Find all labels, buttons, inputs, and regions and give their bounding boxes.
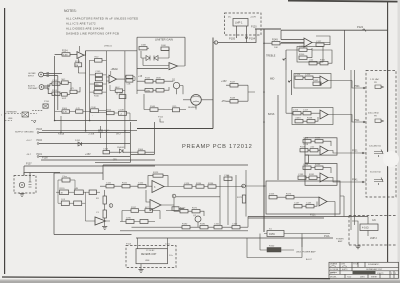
svg-text:P104: P104	[249, 37, 256, 41]
capacitor C10A	[95, 59, 103, 63]
svg-text:C153: C153	[103, 149, 109, 151]
svg-text:1M: 1M	[75, 65, 78, 67]
wire vertical bus x106.4	[105, 51, 107, 131]
svg-text:R126: R126	[300, 147, 306, 149]
svg-text:R164: R164	[138, 149, 144, 151]
svg-text:P102: P102	[37, 140, 43, 142]
svg-text:SHEET: SHEET	[371, 277, 378, 279]
wire rail y130.7	[42, 130, 137, 132]
svg-text:R151: R151	[320, 60, 326, 62]
capacitor C111	[126, 75, 133, 78]
jack icon 2	[375, 119, 384, 122]
svg-text:LINE: LINE	[8, 118, 13, 120]
resistor R121	[122, 185, 130, 188]
op-amp U3B	[152, 181, 164, 193]
svg-text:C117: C117	[303, 110, 309, 112]
svg-text:R133: R133	[315, 164, 321, 166]
svg-text:R136: R136	[208, 183, 214, 185]
resistor R150	[299, 56, 307, 59]
svg-text:C125: C125	[184, 183, 190, 185]
node circled 2	[109, 204, 113, 208]
resistor R133	[315, 166, 323, 169]
capacitor C162a	[62, 178, 70, 182]
border frame right	[387, 2, 389, 263]
capacitor C10B	[119, 111, 127, 115]
op-amp U5B	[319, 197, 327, 206]
title block part no dark cell	[353, 271, 376, 274]
svg-text:C150: C150	[104, 130, 110, 132]
svg-text:P108: P108	[42, 157, 48, 160]
capacitor C147	[294, 205, 302, 208]
svg-text:R123: R123	[153, 172, 159, 174]
bass stage outline	[292, 108, 333, 125]
op-amp U2A	[304, 38, 312, 47]
svg-text:P120: P120	[251, 26, 257, 29]
wire lamp right leg	[246, 26, 248, 43]
capacitor C105	[95, 73, 102, 76]
svg-text:C160: C160	[224, 175, 230, 177]
wire reverb driver	[144, 94, 213, 110]
jack speaker icon	[375, 85, 384, 88]
capacitor C145	[306, 205, 314, 208]
resistor R107	[70, 90, 77, 93]
input jack J2	[28, 85, 44, 91]
ground lower mid	[102, 227, 107, 230]
resistor R111	[95, 77, 102, 80]
svg-text:R104: R104	[62, 51, 68, 53]
resistor R171	[192, 210, 200, 213]
svg-text:.0033: .0033	[295, 118, 301, 120]
svg-text:DASHED LINE PORTIONS OFF PCB: DASHED LINE PORTIONS OFF PCB	[66, 32, 119, 36]
svg-text:C114: C114	[293, 110, 299, 112]
capacitor C116	[295, 120, 303, 123]
capacitor C117	[303, 112, 311, 115]
svg-text:-15V: -15V	[221, 100, 226, 103]
svg-text:D151: D151	[75, 140, 81, 142]
wire treble row	[286, 48, 332, 63]
wire led row	[260, 234, 294, 251]
svg-text:C118: C118	[303, 138, 309, 140]
svg-text:ALL CAPACITORS RATED IN uF UNL: ALL CAPACITORS RATED IN uF UNLESS NOTED	[66, 16, 138, 20]
svg-text:R147: R147	[230, 82, 236, 84]
svg-text:100K: 100K	[141, 45, 147, 47]
svg-text:P107: P107	[26, 163, 32, 166]
svg-text:+16.7: +16.7	[26, 140, 32, 142]
svg-text:C134: C134	[303, 164, 309, 166]
wire into stage C	[245, 185, 266, 187]
wire opamp out	[312, 36, 330, 45]
svg-text:PWR AMP: PWR AMP	[28, 87, 38, 90]
treble stage outline	[297, 47, 323, 63]
jack footswitch	[19, 182, 24, 187]
svg-text:A1.07: A1.07	[306, 258, 312, 261]
switch contacts	[29, 178, 32, 187]
svg-text:SUPPLY GROUND: SUPPLY GROUND	[15, 132, 34, 134]
resistor R136	[208, 185, 216, 188]
vertical wires lower mid right	[220, 170, 246, 225]
svg-text:P103: P103	[37, 129, 43, 131]
svg-text:MODEL: MODEL	[330, 277, 337, 279]
lower right stage B outline	[305, 164, 337, 186]
svg-text:(TP)101: (TP)101	[104, 46, 113, 48]
capacitor C127	[316, 43, 324, 46]
lower mid block outline	[54, 165, 248, 235]
svg-text:1/2W: 1/2W	[126, 218, 131, 220]
connector speaker line	[22, 112, 29, 117]
svg-text:R142: R142	[145, 78, 151, 80]
wire footswitch up	[24, 173, 60, 179]
svg-text:MIC: MIC	[62, 79, 66, 81]
ground reverb	[138, 270, 143, 273]
transformer reverb driver T1	[191, 95, 202, 106]
wire top right pair	[281, 30, 304, 42]
pot treble	[283, 50, 286, 70]
resistor R143	[156, 80, 164, 84]
wire lower rows left	[120, 209, 248, 231]
wire vertical bus x124.9	[124, 51, 126, 131]
resistor R144	[145, 89, 153, 93]
svg-text:2: 2	[395, 273, 396, 275]
resistor R127	[310, 149, 318, 152]
svg-text:LIMITER GAIN: LIMITER GAIN	[155, 37, 173, 41]
svg-text:+C10B: +C10B	[88, 133, 95, 135]
svg-text:1N4003: 1N4003	[117, 147, 125, 149]
resistor R137	[131, 209, 139, 213]
svg-text:LMP 1: LMP 1	[235, 21, 243, 25]
wire U1A out long top	[84, 51, 137, 55]
svg-text:7120: 7120	[347, 277, 351, 279]
op-amp U6B	[95, 217, 106, 225]
capacitor C162	[232, 226, 240, 229]
wire upper block bottom right edge	[95, 122, 154, 162]
resistor R102	[62, 81, 69, 84]
svg-text:C122: C122	[138, 183, 144, 185]
resistor D155	[269, 196, 277, 199]
svg-text:LINE: LINE	[145, 260, 150, 262]
pot ext 2	[374, 178, 383, 186]
transistor Q1	[173, 82, 179, 88]
capacitor C161	[214, 226, 222, 229]
wire opamp2	[146, 190, 174, 205]
transistor Q2	[195, 216, 201, 222]
resistor R142	[145, 80, 153, 84]
resistor R164	[138, 151, 145, 154]
svg-text:R131: R131	[309, 174, 315, 176]
resistor R138b	[145, 209, 153, 213]
resistor R120	[60, 190, 69, 195]
svg-text:C126: C126	[299, 46, 305, 48]
capacitor C101v	[103, 210, 106, 218]
svg-text:6/4/73: 6/4/73	[342, 269, 347, 271]
dashed off-board box bottom right	[349, 216, 397, 246]
pot mid	[289, 70, 292, 95]
svg-text:P114: P114	[126, 244, 132, 246]
resistor R170	[180, 210, 188, 213]
wire limiter vertical main	[137, 38, 213, 129]
lamp LAMP1	[228, 17, 256, 27]
resistor R151	[320, 62, 328, 65]
op-amp U2B	[320, 76, 328, 85]
wire stage A out P531	[308, 141, 366, 153]
svg-text:TITLE: TITLE	[353, 264, 359, 266]
wire P122 top right long	[281, 29, 388, 31]
capacitor C108	[91, 109, 99, 113]
title block	[329, 262, 399, 278]
svg-text:+15V: +15V	[221, 80, 227, 83]
ground bottom right	[355, 246, 360, 249]
svg-text:10K: 10K	[274, 47, 278, 49]
wire jack1 outputs	[44, 74, 63, 76]
wire from lamp to node 1	[218, 29, 257, 43]
wire aux cluster	[110, 77, 135, 97]
wire spkr connect	[352, 217, 368, 247]
capacitor C133	[298, 176, 306, 179]
svg-text:P501: P501	[354, 85, 360, 88]
op-amp U3A	[320, 110, 328, 119]
wire R104 to opamp	[55, 53, 77, 55]
jack tip marks	[47, 73, 50, 90]
svg-text:4.7K: 4.7K	[63, 112, 68, 114]
resistor R148	[230, 100, 238, 104]
wire mid row out P501	[303, 78, 366, 88]
resistor R123 feedback	[153, 174, 163, 177]
hole punch artifact	[383, 151, 399, 167]
wire vertical bus x89.6	[89, 60, 91, 121]
lower right stage A outline	[305, 138, 337, 155]
svg-text:P110: P110	[44, 101, 50, 103]
diode D160 dark	[267, 248, 281, 253]
svg-text:GN: GN	[372, 219, 376, 222]
capacitor C139	[172, 207, 179, 211]
notes text block	[64, 9, 138, 36]
wire reverb bus	[136, 237, 333, 239]
svg-text:C103: C103	[52, 80, 58, 82]
svg-text:INPUT: INPUT	[28, 76, 35, 78]
svg-text:C1B: C1B	[127, 84, 132, 86]
capacitor C150	[98, 126, 103, 138]
svg-text:R114: R114	[106, 109, 112, 111]
svg-text:R149: R149	[272, 39, 278, 42]
op-amp U4A	[169, 63, 178, 70]
mid stage outline	[294, 74, 331, 89]
node circled 4	[172, 194, 176, 198]
wire right inner vertical	[277, 95, 279, 180]
svg-text:P541: P541	[352, 179, 358, 182]
resistor R173	[286, 196, 294, 199]
svg-text:C162: C162	[232, 224, 238, 226]
svg-text:+7V: +7V	[70, 88, 74, 90]
svg-text:DRAWN: DRAWN	[330, 263, 338, 266]
input jack J1	[28, 72, 43, 78]
svg-text:AMP: AMP	[338, 240, 343, 243]
wire power row	[264, 234, 330, 248]
svg-text:J.COSTA: J.COSTA	[330, 268, 339, 271]
capacitor C160	[224, 177, 232, 180]
capacitor C127b	[74, 201, 82, 206]
wire left cluster	[50, 83, 80, 96]
svg-text:PREAMP PCB 172012: PREAMP PCB 172012	[182, 144, 253, 150]
resistor R149	[272, 42, 280, 45]
svg-text:17.5V AC: 17.5V AC	[146, 249, 155, 252]
svg-text:4-16Ω: 4-16Ω	[362, 227, 369, 230]
reverb unit dashed box	[126, 246, 176, 268]
svg-text:C121: C121	[106, 183, 112, 185]
svg-text:DWG: DWG	[360, 277, 365, 279]
svg-text:NOTES:: NOTES:	[64, 9, 77, 13]
border frame left	[4, 8, 6, 274]
resistor R124	[89, 190, 96, 195]
svg-text:ALL IC'S ARE TL072: ALL IC'S ARE TL072	[66, 22, 96, 26]
wire block to reverb	[138, 238, 168, 270]
node circled F	[242, 184, 246, 188]
resistor R140b	[140, 220, 148, 224]
capacitor C126	[299, 48, 307, 51]
svg-text:R110: R110	[94, 95, 100, 97]
svg-text:R172: R172	[237, 197, 243, 199]
svg-text:C145: C145	[306, 203, 312, 205]
svg-text:100P: 100P	[62, 98, 67, 100]
lower right stage C box	[266, 181, 340, 214]
wire rail y120.5	[55, 120, 137, 122]
svg-text:C161: C161	[214, 224, 220, 226]
wire bottom cluster	[55, 111, 130, 121]
wire stage B out P541	[306, 168, 366, 182]
svg-text:DC: DC	[228, 17, 232, 19]
capacitor C121	[106, 185, 114, 188]
capacitor C134	[303, 166, 311, 169]
wire +15/-15 stubs	[226, 85, 255, 101]
svg-text:5/30/73: 5/30/73	[377, 273, 383, 275]
node dots main vertical	[263, 42, 265, 44]
svg-text:C147: C147	[294, 203, 300, 205]
resistor R139	[139, 47, 147, 50]
svg-text:C133: C133	[298, 174, 304, 176]
svg-text:C123: C123	[305, 74, 311, 76]
op-amp U5A	[320, 173, 328, 182]
svg-text:C105: C105	[95, 71, 101, 73]
svg-text:P531: P531	[352, 150, 358, 153]
svg-text:R120: R120	[60, 188, 66, 190]
svg-text:LMP 2: LMP 2	[370, 237, 378, 240]
svg-text:D155: D155	[269, 194, 275, 196]
svg-text:SCHEMATIC ,: SCHEMATIC ,	[368, 263, 381, 266]
svg-text:MID: MID	[270, 78, 275, 81]
limiter top wire	[137, 37, 185, 75]
svg-text:I SPEAKER: I SPEAKER	[6, 111, 17, 114]
svg-text:P105: P105	[229, 37, 236, 41]
svg-text:180K: 180K	[156, 78, 161, 80]
svg-text:P551: P551	[310, 214, 316, 217]
resistor R180	[182, 226, 190, 229]
resistor R141	[161, 47, 169, 51]
svg-text:GUITAR AMP 120T: GUITAR AMP 120T	[366, 268, 383, 271]
ground footswitch	[19, 194, 24, 197]
dashed off-board lamp box	[225, 13, 262, 35]
resistor R139b	[126, 220, 134, 224]
diode D4	[154, 56, 158, 61]
wire lower-left inner	[56, 180, 110, 221]
svg-text:R134: R134	[196, 183, 202, 185]
svg-text:POWER: POWER	[336, 239, 344, 241]
resistor R112	[119, 95, 126, 99]
wire long vertical buses right	[351, 70, 355, 230]
svg-text:R162: R162	[313, 80, 319, 82]
resistor R176	[75, 63, 82, 67]
svg-text:ALL DIODES ARE 1N4148: ALL DIODES ARE 1N4148	[66, 27, 104, 31]
svg-text:R121: R121	[122, 183, 128, 185]
resistor R145	[156, 89, 164, 93]
svg-text:C119: C119	[303, 144, 309, 146]
capacitor C103	[52, 82, 60, 85]
svg-text:+LDR: +LDR	[250, 17, 256, 19]
svg-text:4.7K: 4.7K	[76, 108, 81, 110]
svg-text:R146: R146	[150, 106, 156, 108]
wire bottom row	[132, 217, 249, 228]
speaker line dashed connector	[5, 114, 37, 121]
svg-text:100K: 100K	[161, 45, 166, 47]
wire R149	[264, 42, 304, 44]
svg-text:P11A: P11A	[324, 235, 330, 238]
resistor R147	[230, 84, 238, 88]
wire power box bottom	[247, 238, 302, 258]
svg-text:R150: R150	[299, 54, 305, 56]
svg-text:120-480 KΩ: 120-480 KΩ	[369, 146, 381, 148]
svg-text:BASS: BASS	[268, 113, 275, 116]
scanner dark sliver top-right	[288, 1, 400, 2]
capacitor C153	[103, 151, 110, 154]
wire limiter out	[161, 48, 185, 66]
wire vertical bus x57.8	[57, 76, 59, 110]
wire long bus to speaker	[248, 217, 368, 219]
resistor R122	[74, 190, 83, 195]
op-amp U4B	[320, 146, 328, 155]
svg-text:400-1.8KΩ: 400-1.8KΩ	[368, 113, 379, 115]
svg-text:R103: R103	[52, 90, 58, 92]
svg-text:1M: 1M	[54, 94, 57, 96]
wire limiter mid	[137, 75, 183, 94]
lower left dashed input box	[14, 176, 36, 194]
resistor R181	[200, 226, 208, 229]
resistor R161	[95, 86, 103, 89]
capacitor C120 vertical	[305, 155, 308, 163]
resistor R110	[94, 90, 102, 93]
svg-text:R138: R138	[307, 118, 313, 120]
op-amp U6A	[150, 200, 161, 211]
diode D151	[78, 142, 82, 146]
svg-text:P122: P122	[357, 25, 364, 29]
capacitor C123	[305, 76, 313, 79]
svg-text:R137: R137	[131, 207, 137, 209]
svg-text:30-160 KΩ: 30-160 KΩ	[370, 172, 381, 174]
resistor R109	[62, 110, 70, 113]
svg-text:R159: R159	[269, 233, 275, 236]
title block signature squiggles	[330, 266, 347, 273]
wire dashed connector stub	[32, 109, 43, 111]
svg-text:R173: R173	[286, 194, 292, 196]
scanner dark band below page bottom	[0, 280, 400, 283]
wire bass row out P511	[286, 70, 366, 122]
wire node4 to right	[176, 196, 220, 198]
resistor R103	[52, 92, 60, 95]
svg-text:R148: R148	[230, 98, 236, 100]
svg-text:TREBLE: TREBLE	[266, 55, 276, 58]
capacitor C112	[126, 79, 133, 82]
svg-text:R180: R180	[182, 224, 188, 226]
resistor R114	[106, 111, 114, 114]
op-amp U1A	[77, 52, 84, 59]
wire c105 cluster	[90, 75, 107, 92]
resistor AUX	[115, 89, 122, 92]
